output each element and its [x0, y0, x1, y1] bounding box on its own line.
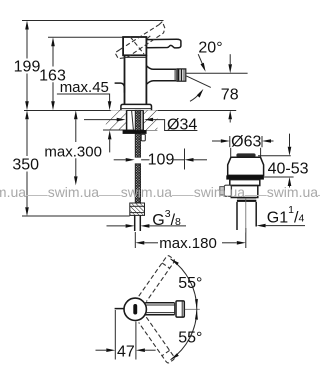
- svg-text:55°: 55°: [178, 275, 202, 292]
- wire extension line hose end 350 bottom: [22, 215, 130, 217]
- angle arc upper 55 deg: [171, 259, 203, 310]
- mounting nut below deck: [123, 130, 147, 134]
- svg-text:78: 78: [221, 87, 239, 104]
- aerator: [177, 69, 186, 81]
- dashed lever up 55 deg: [139, 255, 176, 302]
- dimension max.300: [44, 110, 102, 185]
- dimension 109: [114, 149, 207, 170]
- pop-up rod lower tab: [141, 134, 145, 141]
- dimension 47: [96, 310, 156, 360]
- drain bottom joint: [237, 197, 256, 199]
- angle arc lower 55 deg: [171, 309, 203, 360]
- svg-text:swim.ua: swim.ua: [48, 184, 100, 200]
- svg-text:Ø34: Ø34: [167, 116, 197, 133]
- svg-text:Ø63: Ø63: [231, 133, 261, 150]
- svg-text:max.180: max.180: [159, 235, 217, 252]
- svg-text:max.300: max.300: [44, 144, 102, 161]
- pop-up rod knob: [115, 83, 125, 93]
- faucet head: [123, 37, 146, 55]
- svg-text:swim.ua: swim.ua: [267, 184, 319, 200]
- drain flange: [228, 157, 264, 175]
- flexible supply hose upper: [135, 110, 140, 157]
- drain tailpipe: [236, 202, 238, 230]
- drain body upper: [230, 180, 260, 186]
- dimension 199: [14, 21, 41, 111]
- dashed lever alternate position: [115, 22, 165, 59]
- drain centerline: [245, 198, 247, 233]
- top view pop-up rod: [115, 308, 125, 310]
- drain flange extension lines: [231, 148, 261, 157]
- svg-text:350: 350: [12, 157, 39, 174]
- G 3/8 tailpipe: [135, 215, 141, 231]
- water stream line upper: [186, 72, 247, 74]
- dimension max.180: [135, 228, 246, 252]
- faucet base flange: [121, 104, 152, 110]
- svg-text:20°: 20°: [198, 39, 222, 56]
- svg-text:max.45: max.45: [60, 79, 109, 96]
- faucet body: [125, 55, 147, 104]
- dashed lever down 55 deg: [139, 317, 176, 364]
- dimension diameter 63: [212, 133, 274, 150]
- svg-text:199: 199: [14, 59, 41, 76]
- watermark row: [0, 184, 318, 200]
- water stream line lower 20 deg: [186, 76, 211, 88]
- deck cross-section hatching right: [143, 110, 157, 130]
- label G 1 1/4: [257, 204, 305, 227]
- faucet shank in deck: [127, 110, 144, 130]
- label 20 deg: [190, 39, 223, 101]
- label G 3/8: [107, 208, 187, 229]
- drain gasket: [226, 175, 264, 179]
- svg-text:55°: 55°: [178, 330, 202, 347]
- svg-text:109: 109: [148, 151, 175, 168]
- svg-text:swim.ua: swim.ua: [194, 184, 246, 200]
- lever handle side view: [146, 39, 181, 48]
- dimension 163: [39, 37, 66, 110]
- dimension 350: [12, 110, 39, 216]
- label diameter 34: [84, 116, 197, 133]
- top view faucet body circle: [124, 298, 146, 320]
- wire top extension line 199 level: [22, 20, 164, 22]
- spout: [146, 66, 176, 85]
- pop-up drain: [220, 153, 264, 232]
- watermark dashes: [26, 195, 320, 197]
- top view lever: [145, 301, 184, 317]
- dimension max.45: [57, 79, 112, 152]
- svg-text:40-53: 40-53: [268, 161, 309, 178]
- dimension 40-53: [258, 134, 309, 188]
- G 3/8 fitting nut: [130, 203, 145, 215]
- deck cross-section hatching left: [103, 110, 157, 130]
- drain plug cap: [236, 153, 255, 157]
- svg-text:swim.ua: swim.ua: [121, 184, 173, 200]
- drain side connector: [224, 185, 231, 196]
- top view centerline: [185, 308, 200, 310]
- deck top line: [24, 110, 236, 112]
- hose break: [135, 164, 140, 203]
- svg-text:47: 47: [117, 343, 135, 360]
- wire extension line 163 level: [48, 36, 123, 38]
- drain body lower: [231, 186, 257, 198]
- dimension 78: [221, 54, 239, 122]
- top view joystick slot: [133, 304, 137, 315]
- svg-text:swim.ua: swim.ua: [0, 184, 26, 200]
